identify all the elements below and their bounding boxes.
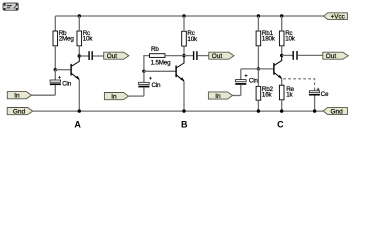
resistor Rb (stage A) [53, 30, 74, 46]
svg-text:Gnd: Gnd [13, 109, 26, 116]
resistor Rc (stage C) [279, 30, 295, 46]
wire: base wire A [55, 69, 70, 71]
toolbar badge icon top-left [3, 3, 18, 10]
flag Out (stage A) [104, 52, 129, 60]
capacitor Cout (stage C coupling) [282, 51, 323, 60]
wire: Rb B right to collector node [165, 55, 184, 57]
resistor Rc (stage A) [77, 30, 93, 46]
wire: dashed emitter bypass branch [283, 79, 314, 91]
svg-text:1.5Meg: 1.5Meg [151, 59, 172, 66]
wire: Rb B left down to base node [144, 56, 149, 72]
wire: Rb2 bottom to ground [257, 100, 259, 111]
svg-text:In: In [14, 93, 20, 100]
flag +Vcc [324, 13, 348, 21]
wire: emitter A to ground [78, 80, 80, 112]
node: rail junction at Rb1 C [257, 14, 260, 17]
svg-text:2Meg: 2Meg [59, 36, 75, 43]
svg-text:Cin: Cin [62, 80, 72, 87]
node: rail junction at Rc B [182, 14, 185, 17]
wire: emitter B to ground [183, 81, 185, 111]
svg-text:In: In [111, 94, 117, 101]
wire: base line to Rb2 [257, 69, 259, 87]
node: rail junction at Rc A [78, 14, 81, 17]
wire: base wire B [144, 70, 176, 72]
wire: rail to Rc B [183, 16, 185, 31]
resistor Rb feedback (stage B) [150, 46, 172, 66]
flag Gnd right [323, 107, 347, 115]
node: collector node C [280, 54, 283, 57]
wire: Re bottom to ground [281, 100, 283, 111]
svg-text:Out: Out [107, 53, 118, 60]
svg-text:C: C [277, 119, 284, 129]
svg-text:180k: 180k [262, 36, 276, 43]
transistor Q (stage B) [176, 56, 184, 82]
svg-text:Rb: Rb [151, 46, 159, 53]
wire: Rc A bottom to collector node [78, 46, 80, 56]
wire: emitter C to Re [281, 79, 283, 85]
svg-text:10k: 10k [187, 36, 198, 43]
wire: +Vcc top rail [55, 15, 323, 17]
wire: base wire C [241, 68, 274, 70]
node: emitter-ground junction B [182, 109, 185, 112]
wire: In A to Cin [31, 94, 55, 96]
flag In (stage C) [208, 92, 232, 100]
svg-text:Out: Out [212, 53, 223, 60]
resistor Re (stage C) [279, 85, 294, 100]
svg-text:Ce: Ce [321, 91, 329, 98]
flag Out (stage B) [209, 52, 234, 60]
svg-text:Cin: Cin [249, 77, 259, 84]
capacitor Cin (stage C, polarized) [235, 69, 258, 96]
wire: In C to Cin [233, 95, 241, 97]
node: base junction A [54, 68, 57, 71]
node: collector node B [182, 54, 185, 57]
node: base junction C [257, 67, 260, 70]
wire: In B to Cin [129, 95, 144, 97]
resistor Rb2 (stage C) [256, 86, 273, 100]
wire: ground rail [33, 110, 324, 112]
flag In (stage B) [104, 93, 128, 101]
wire: left drop of top rail to Rb A [54, 16, 56, 31]
svg-text:In: In [215, 93, 221, 100]
wire: rail to Rb1 [257, 16, 259, 31]
node: rail junction at Rc C [280, 14, 283, 17]
node: Ce-ground junction [313, 109, 316, 112]
transistor Q (stage A) [71, 56, 80, 80]
svg-text:+Vcc: +Vcc [331, 14, 345, 21]
svg-text:Gnd: Gnd [331, 108, 344, 115]
resistor Rb1 (stage C) [256, 30, 276, 46]
capacitor Cin (stage A, polarized) [50, 70, 72, 96]
svg-text:10k: 10k [285, 36, 296, 43]
wire: rail to Rc C [281, 16, 283, 31]
wire: Rc C bottom to collector node [281, 46, 283, 56]
capacitor Ce (bypass, polarized) [309, 88, 329, 111]
wire: rail to Rc A [78, 16, 80, 31]
flag In (stage A) [7, 92, 31, 100]
transistor Q (stage C) [274, 55, 282, 78]
wire: Rc B bottom to collector node [183, 46, 185, 56]
flag Out (stage C) [323, 52, 349, 60]
svg-text:10k: 10k [83, 36, 94, 43]
node: emitter-ground junction A [78, 109, 81, 112]
svg-text:Cin: Cin [152, 82, 162, 89]
svg-text:Out: Out [326, 53, 337, 60]
node: base junction B [142, 70, 145, 73]
svg-text:16k: 16k [262, 92, 273, 99]
capacitor Cout (stage A coupling) [79, 51, 103, 60]
node: Re-ground junction [280, 109, 283, 112]
svg-text:A: A [74, 119, 81, 129]
capacitor Cout (stage B coupling) [184, 51, 209, 60]
flag Gnd left [7, 108, 33, 116]
wire: Rb1 bottom to base line [257, 46, 259, 69]
node: Rb2-ground junction [257, 109, 260, 112]
svg-text:B: B [181, 119, 188, 129]
resistor Rc (stage B) [182, 30, 198, 46]
svg-text:1k: 1k [286, 92, 293, 99]
node: collector node A [78, 54, 81, 57]
wire: Rb A bottom to base node [54, 46, 56, 70]
capacitor Cin (stage B, polarized) [138, 71, 161, 96]
